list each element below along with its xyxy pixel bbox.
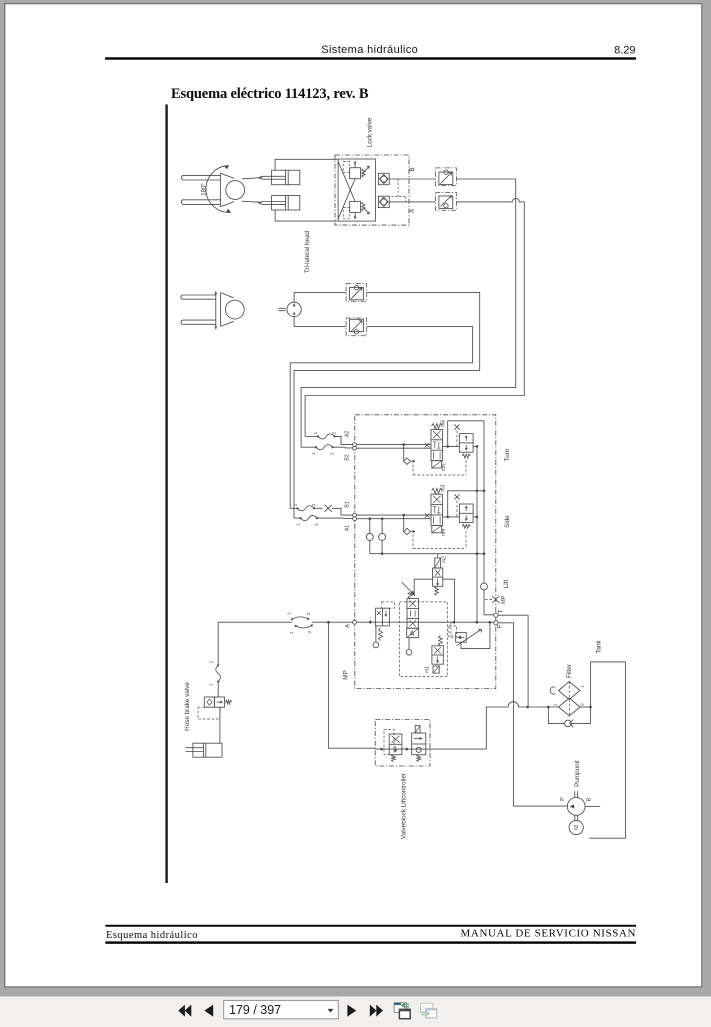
- prev page button: [204, 1005, 213, 1017]
- svg-text:1: 1: [313, 432, 319, 435]
- m2 pilot valve: [433, 556, 448, 596]
- Turn section lines A2/B2 to valve: [357, 444, 432, 446]
- motor line bottom: [294, 326, 346, 328]
- Side shuttle branch: [403, 515, 405, 531]
- svg-text:1: 1: [311, 452, 317, 455]
- left pilot reducing valve: [373, 602, 394, 648]
- svg-text:2: 2: [580, 703, 586, 706]
- line B: [389, 178, 435, 180]
- svg-text:MP: MP: [343, 670, 350, 679]
- svg-text:T: T: [498, 609, 504, 613]
- electric motor: [569, 820, 583, 834]
- svg-text:2: 2: [306, 612, 312, 615]
- vertical coupling: [216, 665, 221, 681]
- line B continues, corner down: [301, 179, 516, 447]
- svg-text:Sistema hidráulico: Sistema hidráulico: [321, 44, 418, 56]
- svg-text:Lift: Lift: [503, 580, 510, 589]
- crossover pilot lines: [338, 162, 355, 219]
- svg-text:Pumpunit: Pumpunit: [574, 760, 581, 787]
- lock valve inner body: [338, 159, 375, 221]
- ports B1 A1: [353, 513, 357, 517]
- footer rule 2: [105, 941, 636, 943]
- check valves under A1 line: [369, 517, 372, 520]
- vertical drop to hose brake valve: [217, 622, 219, 665]
- svg-text:m3: m3: [441, 484, 447, 491]
- svg-text:m1: m1: [425, 666, 431, 673]
- filter: [550, 664, 585, 716]
- motor line top: [294, 291, 346, 293]
- svg-text:A: A: [345, 624, 351, 628]
- carriage frame: [275, 159, 337, 221]
- line A continues with hop over B, corner down: [305, 198, 524, 436]
- svg-text:m2: m2: [441, 556, 447, 563]
- counterbalance valve top: [343, 161, 369, 179]
- svg-text:m4: m4: [441, 529, 447, 536]
- svg-text:Esquema hidráulico: Esquema hidráulico: [106, 930, 198, 941]
- ports A2 B2: [353, 443, 357, 447]
- svg-text:Hose brake valve: Hose brake valve: [184, 682, 191, 731]
- A line leftwards with coupling pair: [312, 621, 353, 623]
- lock valve dash-dot enclosure: [335, 155, 409, 225]
- branch down to liftcontroller: [328, 622, 375, 748]
- header rule: [105, 57, 636, 59]
- svg-text:Valveblock Liftcontroller: Valveblock Liftcontroller: [401, 773, 408, 839]
- collector line to gallery: [370, 553, 484, 555]
- cylinder 1: [259, 170, 300, 185]
- svg-text:1: 1: [293, 503, 299, 506]
- svg-text:Tank: Tank: [596, 640, 603, 654]
- gallery V1: [476, 446, 478, 622]
- svg-text:2: 2: [209, 660, 215, 663]
- liftcontroller line through: [375, 748, 486, 750]
- svg-text:A2: A2: [345, 431, 351, 437]
- line A: [389, 201, 435, 203]
- page number input: [224, 1000, 339, 1018]
- Side valve to compensator link: [443, 516, 460, 518]
- filter bypass check valve: [547, 706, 592, 728]
- brake cylinder: [185, 743, 222, 757]
- lift group dashed enclosure: [400, 602, 448, 677]
- svg-text:B: B: [409, 167, 416, 171]
- Side dashed group box bottom: [413, 548, 466, 550]
- svg-text:Lock valve: Lock valve: [367, 117, 374, 147]
- svg-text:1: 1: [553, 703, 559, 706]
- tank connection: [589, 662, 625, 838]
- svg-text:2: 2: [330, 452, 336, 455]
- Side valve m3/m4: [431, 484, 447, 535]
- T return line down: [498, 615, 528, 707]
- coupling row A1: [294, 517, 301, 519]
- svg-text:m6: m6: [441, 420, 447, 427]
- motor bottom line, corner down to B1: [290, 327, 472, 509]
- Turn comp outlet to gallery V1: [473, 445, 477, 447]
- m1 pilot valve: [425, 635, 444, 673]
- coupling row A2: [305, 435, 318, 437]
- coupling row B2: [301, 446, 316, 448]
- hose brake valve: [184, 682, 232, 731]
- Side orifice: [456, 501, 458, 517]
- svg-text:A1: A1: [345, 525, 351, 531]
- last page button: [370, 1005, 377, 1017]
- svg-text:Turn: Turn: [504, 448, 511, 461]
- svg-text:B: B: [587, 797, 593, 801]
- svg-text:M: M: [574, 825, 580, 830]
- pilot check valve B: [378, 173, 389, 184]
- liftcontroller relief valve: [384, 729, 402, 761]
- throttle check valve motor top: [346, 284, 367, 302]
- links from head to cylinder rods: [242, 178, 262, 179]
- Turn dashed group box bottom: [413, 474, 466, 476]
- pilot crossover dashes: [392, 179, 406, 202]
- svg-text:MP: MP: [501, 595, 507, 604]
- svg-text:2: 2: [332, 432, 338, 435]
- main pressure line A-P: [357, 621, 494, 623]
- P pressure line down to pump: [498, 623, 567, 806]
- motor top line, corner down to A1: [294, 292, 480, 518]
- line to brake cylinder: [219, 707, 221, 743]
- next page button: [347, 1005, 356, 1017]
- svg-text:180°: 180°: [201, 183, 208, 196]
- m2 connections: [414, 579, 432, 596]
- throttle check valve motor bottom: [346, 318, 367, 336]
- toolbar: [0, 997, 711, 1027]
- svg-text:1: 1: [209, 683, 215, 686]
- svg-text:B2: B2: [345, 454, 351, 460]
- main proportional spool valve: [402, 582, 419, 655]
- P node: [494, 621, 498, 625]
- drive shaft: [279, 308, 286, 310]
- previous view icon: [394, 1002, 410, 1019]
- figure left border line: [165, 105, 167, 884]
- svg-text:2: 2: [311, 503, 317, 506]
- svg-text:1: 1: [289, 631, 295, 634]
- pump shaft: [575, 791, 578, 820]
- svg-text:1: 1: [287, 612, 293, 615]
- Side compensator: [459, 504, 473, 528]
- pilot check valve A: [378, 196, 389, 207]
- coupling row B1 with plug: [290, 507, 297, 509]
- tri-lateral head fork symbol: [181, 173, 244, 207]
- first page button: [178, 1005, 185, 1017]
- main valve block dash-dot border: [355, 415, 496, 689]
- Turn shuttle branch: [403, 445, 405, 462]
- gallery V2: [484, 421, 494, 615]
- svg-text:B1: B1: [345, 501, 351, 507]
- next view icon (disabled): [421, 1003, 437, 1018]
- T node: [494, 613, 498, 617]
- pump: [560, 797, 600, 815]
- svg-text:P: P: [498, 624, 504, 628]
- svg-text:MANUAL DE SERVICIO NISSAN: MANUAL DE SERVICIO NISSAN: [461, 928, 636, 940]
- footer rule 1: [105, 925, 636, 927]
- Side valve top line to gallery V2: [448, 491, 484, 517]
- svg-text:2: 2: [314, 523, 320, 526]
- liftcontroller 2/2 valve: [412, 726, 426, 762]
- svg-text:Tri-lateral head: Tri-lateral head: [304, 230, 311, 273]
- relief valve: [449, 621, 491, 649]
- svg-text:m5: m5: [441, 464, 447, 471]
- cylinder 2: [259, 196, 300, 211]
- line up and over to filter: [486, 702, 558, 749]
- fork symbol 2: [181, 291, 244, 329]
- Turn valve m6/m5: [431, 420, 447, 471]
- svg-text:179 / 397: 179 / 397: [229, 1003, 281, 1017]
- Side section lines B1/A1 to valve: [357, 514, 432, 516]
- svg-text:Esquema eléctrico 114123, rev.: Esquema eléctrico 114123, rev. B: [171, 86, 369, 102]
- svg-text:Side: Side: [504, 515, 511, 528]
- 180 degree rotation arc: [201, 165, 232, 212]
- svg-text:Filter: Filter: [566, 664, 573, 678]
- hydraulic motor: [287, 292, 301, 326]
- port A node: [353, 620, 357, 624]
- Side comp outlet to gallery V1: [473, 516, 477, 518]
- svg-text:P: P: [560, 797, 566, 801]
- svg-text:2: 2: [307, 631, 313, 634]
- Turn valve to compensator link: [443, 445, 460, 447]
- counterbalance valve bottom: [343, 201, 369, 219]
- valveblock liftcontroller box: [375, 720, 430, 767]
- MP test point: [485, 598, 492, 600]
- svg-text:8.29: 8.29: [614, 44, 635, 56]
- Turn orifice: [456, 431, 458, 447]
- svg-text:1: 1: [296, 523, 302, 526]
- throttle check valve A: [435, 193, 456, 211]
- throttle check valve B: [435, 168, 456, 186]
- Turn compensator: [459, 434, 473, 458]
- Turn valve top line to gallery V2: [448, 421, 484, 447]
- svg-text:1: 1: [580, 685, 586, 688]
